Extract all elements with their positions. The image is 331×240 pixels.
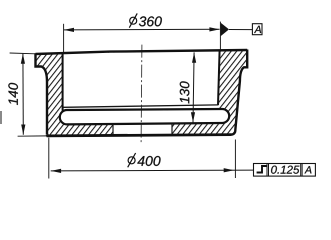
dim 360 arrow left bbox=[64, 28, 74, 32]
tolerance frame divider 1 bbox=[266, 164, 268, 177]
dim 140 extension bottom bbox=[18, 135, 48, 137]
internal groove slot outline bbox=[60, 109, 229, 124]
dim 400 line bbox=[51, 169, 254, 172]
tolerance value bbox=[271, 166, 299, 174]
part bottom edge bbox=[47, 134, 232, 136]
dia symbol 360 bbox=[129, 13, 137, 27]
runout symbol bbox=[257, 166, 267, 173]
part cross-section hatched material bbox=[36, 50, 248, 136]
scan artifact left margin bbox=[0, 111, 2, 124]
datum A letter bbox=[254, 26, 261, 33]
bottom recess left step bbox=[112, 124, 114, 135]
dim 130 arrow up bbox=[192, 53, 196, 63]
interior floor line bbox=[64, 105, 219, 107]
part top edge bbox=[36, 50, 248, 54]
dim text 400 bbox=[137, 156, 160, 166]
datum A box bbox=[252, 24, 262, 35]
part right outer profile bbox=[232, 50, 248, 135]
dim text 360 bbox=[139, 16, 162, 26]
dim 400 extension left bbox=[48, 138, 50, 179]
dim 400 arrow left bbox=[51, 169, 61, 173]
inner wall right edge bbox=[218, 50, 220, 105]
tolerance datum letter bbox=[304, 166, 311, 173]
dim 130 line bbox=[193, 52, 194, 122]
dim 140 extension top bbox=[10, 52, 36, 55]
dim 140 arrow down bbox=[21, 125, 25, 135]
part left outer profile bbox=[36, 53, 48, 134]
datum A triangle bbox=[221, 23, 229, 36]
dim 360 arrow right bbox=[209, 27, 219, 31]
dim 130 arrow down bbox=[191, 112, 195, 122]
dim text 130 bbox=[180, 81, 190, 103]
center line bbox=[140, 45, 143, 143]
dim 140 arrow up bbox=[21, 54, 25, 64]
inner wall left edge bbox=[62, 54, 64, 111]
dim 400 arrow right bbox=[224, 168, 234, 172]
tolerance frame divider 2 bbox=[300, 164, 302, 177]
dim 360 extension line right bbox=[219, 22, 221, 50]
dim text 140 bbox=[8, 83, 18, 105]
dim 360 extension line left bbox=[63, 24, 65, 53]
dim 400 extension right bbox=[234, 140, 236, 179]
tolerance frame box bbox=[254, 164, 316, 177]
bottom recess right step bbox=[171, 124, 173, 135]
dia symbol 400 bbox=[128, 153, 136, 167]
datum A leader bbox=[229, 29, 252, 31]
dim 360 line bbox=[64, 28, 220, 31]
dim 140 line bbox=[22, 54, 24, 135]
